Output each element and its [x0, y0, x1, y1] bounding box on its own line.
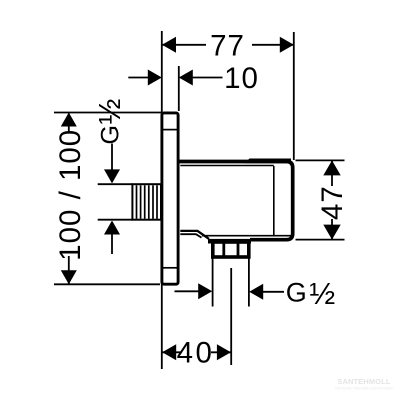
svg-text:100 / 100: 100 / 100 [54, 129, 87, 261]
svg-text:интернет магазин сантехники: интернет магазин сантехники [335, 385, 393, 390]
svg-text:47: 47 [316, 185, 349, 220]
svg-text:40: 40 [177, 336, 215, 369]
svg-text:77: 77 [210, 29, 245, 62]
svg-text:G½: G½ [92, 99, 127, 145]
svg-text:10: 10 [224, 62, 259, 95]
svg-text:G½: G½ [286, 276, 336, 311]
